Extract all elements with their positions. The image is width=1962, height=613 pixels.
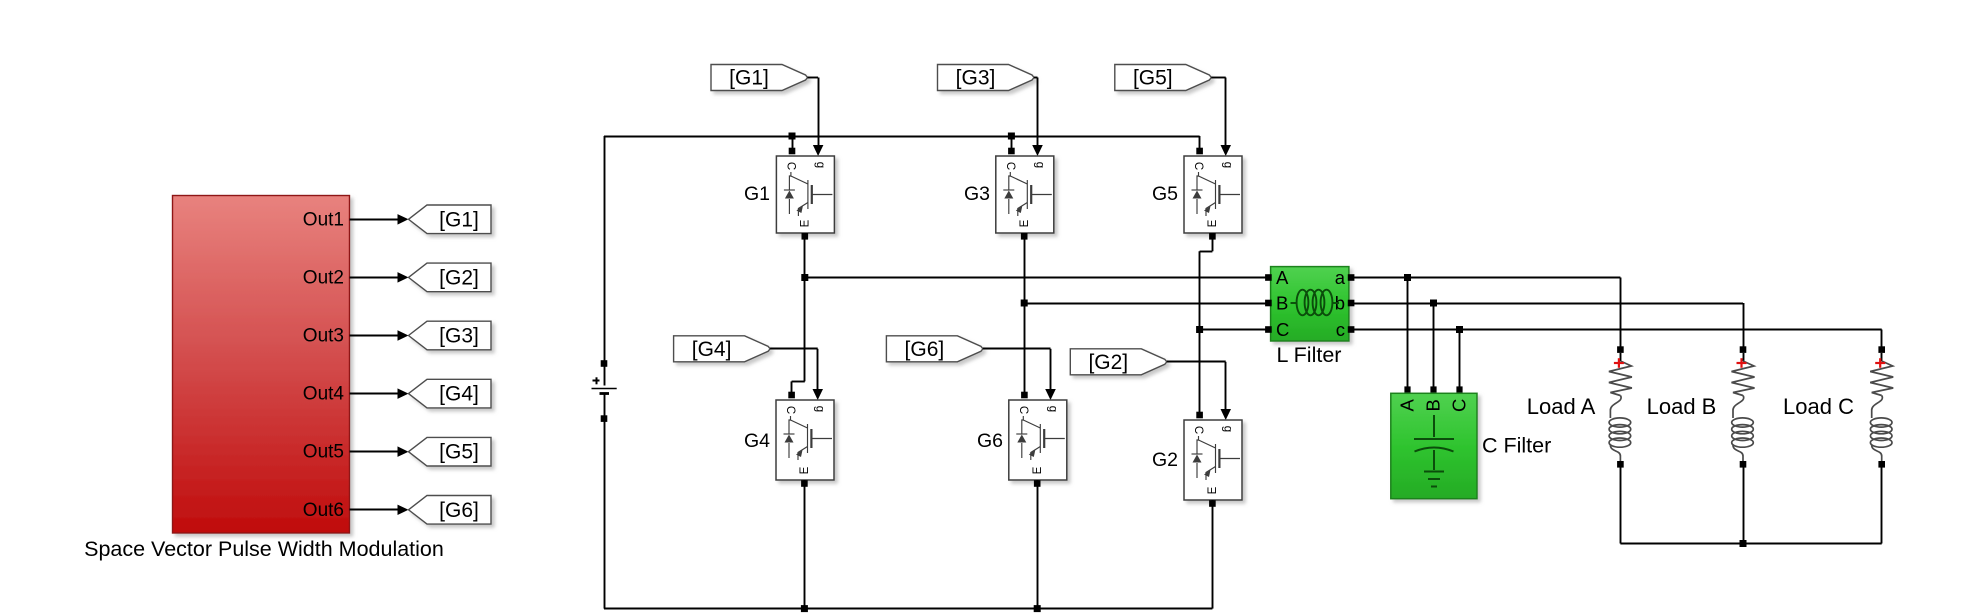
svg-text:C: C [1276,319,1289,340]
wire: phase C to L Filter input C [1200,329,1267,331]
wire: phase B to L Filter input B [1024,303,1266,305]
wire from [G5] to G5 gate [1211,77,1225,79]
from tag [G4] [674,336,771,362]
junction tap c to C Filter [1456,326,1463,333]
svg-text:[G5]: [G5] [1133,67,1173,90]
svg-text:[G6]: [G6] [439,499,479,522]
IGBT/Diode block G3 [996,156,1054,233]
wire: DC- bottom bus [604,608,1212,610]
svg-text:[G2]: [G2] [1088,351,1128,374]
svg-text:[G1]: [G1] [729,67,769,90]
svg-text:E: E [799,219,811,227]
svg-text:E: E [1207,219,1219,227]
svg-text:[G5]: [G5] [439,441,479,464]
svg-text:Out5: Out5 [303,442,344,463]
svg-text:C: C [1017,406,1029,414]
wire from [G4] to G4 gate [770,348,818,350]
wire: top bus to G5 collector [1199,136,1201,153]
wire: DC+ top bus [604,136,1200,138]
svg-text:A: A [1276,267,1289,288]
L Filter block [1265,267,1354,341]
wire Out4 to goto [G4] [350,393,400,395]
svg-text:C: C [784,162,796,170]
svg-text:E: E [1032,466,1044,474]
junction on bottom bus at G6 emitter [1034,605,1041,612]
load branch C : series RL [1870,346,1893,543]
svg-text:g: g [814,162,826,168]
wire: G6 emitter to bottom bus [1034,480,1041,487]
wire: L Filter output a to Load [1349,277,1621,279]
junction tap b to C Filter [1430,300,1437,307]
IGBT/Diode block G4 [776,400,834,480]
wire from [G1] to G1 gate [808,77,819,79]
IGBT/Diode block G1 [776,156,834,233]
goto tag [G3] [409,321,492,350]
junction tap a to C Filter [1404,274,1411,281]
C Filter block [1391,393,1477,498]
from tag [G3] [938,65,1035,91]
wire from [G2] to G2 gate [1167,361,1226,363]
goto tag [G4] [409,379,492,408]
wire: left DC- vertical from battery [604,419,606,609]
svg-text:[G3]: [G3] [439,325,479,348]
svg-text:Out1: Out1 [303,209,344,230]
wire: load neutral bus [1620,543,1881,545]
from tag [G6] [886,336,983,362]
wire: L Filter output c to Load [1349,329,1882,331]
wire Out2 to goto [G2] [350,277,400,279]
wire: phase A to L Filter input A [805,277,1267,279]
load branch B : series RL [1732,346,1755,543]
svg-text:g: g [1033,162,1045,168]
wire: L Filter output b to Load [1349,303,1743,305]
wire load C to neutral bus [1881,468,1883,544]
svg-text:G6: G6 [977,430,1003,452]
from tag [G1] [711,65,808,91]
svg-text:G2: G2 [1152,449,1178,471]
wire Out3 to goto [G3] [350,335,400,337]
IGBT/Diode block G2 [1184,420,1242,500]
svg-text:[G3]: [G3] [956,67,996,90]
goto tag [G6] [409,496,492,525]
wire from [G6] to G6 gate [983,348,1051,350]
svg-text:C: C [784,406,796,414]
wire Out6 to goto [G6] [350,509,400,511]
svg-text:Out4: Out4 [303,384,345,405]
node phase C [1196,326,1203,333]
wire: top bus to G1 collector [792,136,794,153]
wire Out5 to goto [G5] [350,451,400,453]
wire: G1 emitter to phase A node and down to G4 collector [802,233,809,240]
svg-text:C Filter: C Filter [1482,434,1551,458]
node phase A [801,274,808,281]
svg-text:C: C [1004,162,1016,170]
svg-text:Out2: Out2 [303,267,344,288]
DC voltage source battery [592,360,617,422]
IGBT/Diode block G6 [1009,400,1067,480]
junction on bottom bus at G4 emitter [801,605,808,612]
svg-text:[G4]: [G4] [439,383,479,406]
subsystem SVPWM (Space Vector Pulse Width Modulation) [173,196,350,534]
node phase B [1021,300,1028,307]
svg-text:E: E [1207,486,1219,494]
IGBT/Diode block G5 [1184,156,1242,233]
svg-text:G3: G3 [964,183,990,205]
svg-text:Load A: Load A [1527,394,1596,419]
svg-text:g: g [1222,162,1234,168]
goto tag [G2] [409,263,492,292]
svg-text:g: g [1046,406,1058,412]
svg-text:a: a [1335,267,1346,288]
svg-text:G5: G5 [1152,183,1178,205]
from tag [G5] [1115,65,1212,91]
svg-text:g: g [1222,426,1234,432]
load branch A : series RL [1609,346,1632,543]
svg-text:g: g [814,406,826,412]
svg-text:Out3: Out3 [303,326,344,347]
svg-text:Load B: Load B [1647,394,1717,419]
svg-text:E: E [1019,219,1031,227]
wire: G2 emitter to bottom bus [1209,500,1216,507]
svg-text:c: c [1336,319,1345,340]
from tag [G2] [1070,349,1167,375]
junction neutral at Load B [1740,540,1747,547]
wire: G3 emitter to phase B node and down to G6 collector [1021,233,1028,240]
svg-text:[G4]: [G4] [692,338,732,361]
svg-text:C: C [1192,162,1204,170]
svg-text:[G2]: [G2] [439,266,479,289]
svg-text:[G6]: [G6] [905,338,945,361]
svg-text:[G1]: [G1] [439,208,479,231]
wire: left DC+ vertical to battery [604,136,606,364]
svg-text:B: B [1423,399,1444,411]
svg-text:Load C: Load C [1783,394,1854,419]
svg-text:Out6: Out6 [303,500,344,521]
svg-text:E: E [799,466,811,474]
wire: top bus to G3 collector [1011,136,1013,153]
svg-text:A: A [1397,398,1418,411]
svg-text:G4: G4 [744,430,770,452]
junction on top bus at G1 collector [789,133,796,140]
wire Out1 to goto [G1] [350,219,400,221]
svg-text:G1: G1 [744,183,770,205]
wire: G4 emitter to bottom bus [801,480,808,487]
svg-text:L Filter: L Filter [1277,343,1342,367]
goto tag [G1] [409,205,492,234]
goto tag [G5] [409,437,492,466]
svg-text:C: C [1449,399,1470,412]
wire: G5 emitter jog to phase C node and down to G2 collector [1209,233,1216,240]
svg-text:Space Vector Pulse Width Modul: Space Vector Pulse Width Modulation [84,537,444,561]
svg-text:C: C [1192,426,1204,434]
wire load B to neutral bus [1743,468,1745,544]
svg-text:B: B [1276,293,1288,314]
wire from [G3] to G3 gate [1034,77,1038,79]
wire load A to neutral bus [1620,468,1622,544]
junction on top bus at G3 collector [1008,133,1015,140]
